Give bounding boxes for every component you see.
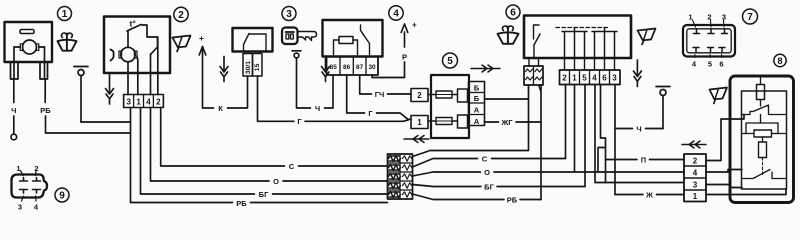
svg-text:+: +: [412, 21, 417, 30]
relay 4: [323, 20, 383, 75]
svg-text:РБ: РБ: [236, 199, 247, 208]
pin 3 drop to РБ bus: [131, 108, 388, 203]
wire Р relay 30 to plus: [372, 24, 408, 78]
loop wire from X1 row1: [413, 85, 529, 157]
svg-text:БГ: БГ: [484, 182, 494, 191]
svg-text:5: 5: [582, 74, 587, 83]
connector 9 pin labels: [16, 164, 39, 212]
ignition terminal labels: [245, 61, 261, 74]
switch 6 two-pin connector: [524, 58, 543, 92]
svg-text:85: 85: [330, 64, 338, 71]
pin 4 drop to О bus: [151, 108, 388, 182]
label circle 9: [55, 188, 69, 202]
relay 4 terminal labels: [330, 64, 376, 71]
wire Ч pin3 to body point B: [615, 85, 663, 195]
label circle 7: [743, 9, 758, 24]
wire from body point A to node: [81, 121, 131, 123]
X2 cell 2 wire to relay 8: [706, 115, 744, 161]
switch 6 pin row 2 1 5 4 6 3: [560, 58, 621, 85]
bus БГ right: [413, 185, 586, 187]
svg-text:8: 8: [777, 55, 782, 66]
svg-text:4: 4: [592, 74, 597, 83]
svg-text:7: 7: [747, 12, 753, 23]
bus О right: [413, 172, 685, 176]
svg-text:+: +: [199, 33, 204, 43]
svg-text:РБ: РБ: [40, 106, 51, 115]
svg-text:Р: Р: [402, 53, 407, 62]
svg-text:Ч: Ч: [11, 106, 16, 115]
relay 8 armature link (dashed): [762, 158, 764, 177]
bus РБ right: [413, 194, 542, 200]
wire Г relay 86 to joint: [347, 75, 411, 119]
wire Ч (pump ground): [13, 79, 15, 134]
svg-text:С: С: [289, 162, 295, 171]
svg-text:ЖГ: ЖГ: [500, 118, 513, 127]
connector 7 labels: [688, 13, 726, 69]
svg-text:3: 3: [612, 74, 617, 83]
svg-text:Ж: Ж: [645, 190, 653, 199]
wire ГЧ relay 87 to block 5: [360, 75, 411, 94]
column switch 6: [524, 16, 631, 59]
svg-text:ГЧ: ГЧ: [375, 90, 385, 99]
svg-text:1: 1: [688, 13, 692, 22]
svg-text:1: 1: [693, 192, 698, 201]
ground symbol right of pin row: [633, 60, 641, 87]
svg-text:4: 4: [393, 9, 399, 20]
svg-text:1: 1: [62, 9, 68, 20]
svg-text:А: А: [474, 105, 480, 114]
label circle 8: [774, 54, 786, 66]
svg-text:О: О: [273, 177, 279, 186]
wire ЖГ to switch connector: [485, 85, 542, 200]
jog to Ж wire: [615, 194, 684, 196]
connector 9: [12, 171, 48, 202]
svg-text:30: 30: [368, 64, 376, 71]
label circle 5: [443, 53, 458, 68]
svg-text:1: 1: [16, 164, 20, 173]
block 5 terminal labels: [417, 83, 479, 127]
circled number digits: [59, 8, 782, 202]
arrow symbol right of block 5: [471, 65, 500, 72]
svg-text:5: 5: [447, 56, 453, 67]
svg-text:1: 1: [136, 98, 141, 107]
right connector X2: [684, 154, 706, 202]
label circle 1: [58, 7, 72, 21]
svg-text:А: А: [474, 117, 480, 126]
relay 8 inner box: [742, 91, 787, 189]
svg-text:3: 3: [126, 98, 131, 107]
relay 8 outer box: [730, 76, 794, 203]
relay 8 coil resistor: [759, 137, 767, 158]
wire Г labels: [297, 109, 373, 126]
svg-text:1: 1: [417, 118, 422, 127]
wire Б2 to switch connector: [485, 98, 529, 100]
svg-text:2: 2: [693, 157, 698, 166]
pin 6 drop to П wire: [598, 85, 684, 183]
X2 cell labels: [693, 157, 698, 202]
svg-text:2: 2: [34, 164, 38, 173]
svg-text:5: 5: [708, 60, 712, 69]
bus labels left: [236, 162, 294, 208]
relay 8 upper contact: [742, 105, 787, 115]
X2 cell 3 wire to relay 8: [706, 185, 742, 188]
pin 4 drop to cell 3: [595, 85, 684, 183]
pin 2 drop: [565, 85, 567, 159]
svg-text:Г: Г: [297, 117, 302, 126]
pin 5 drop: [584, 85, 586, 187]
ignition switch 3: [233, 28, 273, 76]
body ground point B: [656, 87, 670, 129]
wiper motor 2: [104, 17, 170, 95]
svg-text:Ч: Ч: [315, 104, 320, 113]
middle connector X1: [388, 154, 413, 199]
relay 8 top resistor: [757, 76, 765, 106]
body ground point A: [74, 67, 88, 123]
wire Г ignition 15 to joint: [258, 76, 409, 121]
t-degree label: [130, 19, 137, 29]
svg-text:4: 4: [146, 98, 151, 107]
svg-text:2: 2: [707, 13, 711, 22]
wiper icon (relay 8): [710, 88, 728, 104]
svg-text:15: 15: [254, 63, 261, 71]
washer jet icon (switch 6): [498, 26, 519, 44]
ground symbol under motor 2: [106, 73, 114, 104]
wiper icon right of switch 6: [638, 29, 656, 45]
svg-text:2: 2: [417, 91, 422, 100]
svg-text:Ч: Ч: [636, 124, 641, 133]
svg-text:БГ: БГ: [259, 190, 269, 199]
X2 cell 1 wire under relay 8: [706, 189, 786, 195]
ground symbol under relay 4: [322, 59, 330, 82]
node under key: [292, 51, 301, 58]
pin 1 drop: [574, 85, 576, 173]
svg-text:t°: t°: [130, 19, 137, 29]
label circle 4: [389, 6, 403, 20]
wire К battery plus to 30/1: [199, 47, 247, 109]
svg-text:6: 6: [602, 74, 607, 83]
X2 cell 4 wire to relay 8: [706, 170, 742, 173]
svg-text:2: 2: [156, 98, 161, 107]
svg-text:К: К: [218, 104, 223, 113]
washer jet icon (component 1): [58, 33, 77, 51]
svg-text:С: С: [482, 154, 488, 163]
svg-text:2: 2: [562, 74, 567, 83]
arrow symbol above X2: [682, 141, 706, 148]
svg-text:Б: Б: [474, 94, 480, 103]
svg-text:30/1: 30/1: [245, 61, 252, 74]
svg-text:9: 9: [59, 191, 65, 202]
svg-text:87: 87: [356, 64, 364, 71]
bus labels right: [482, 154, 518, 204]
washer pump motor 1: [5, 22, 53, 79]
label circle 6: [506, 5, 520, 19]
wire labels К Ч: [218, 104, 320, 113]
svg-text:6: 6: [719, 60, 723, 69]
svg-text:3: 3: [18, 203, 22, 212]
ground symbol under ignition: [220, 57, 228, 82]
relay 8 resistor loop: [742, 115, 787, 138]
ignition key icon: [282, 28, 317, 45]
svg-text:О: О: [484, 168, 490, 177]
wire РБ from pump: [45, 79, 130, 133]
svg-text:П: П: [641, 155, 646, 164]
svg-text:3: 3: [286, 9, 292, 20]
pin row labels: [562, 74, 617, 83]
svg-text:6: 6: [510, 8, 516, 19]
bus С right: [413, 159, 566, 168]
plus label left: [199, 33, 204, 43]
svg-text:РБ: РБ: [507, 195, 518, 204]
relay 8 lower contact: [742, 170, 787, 179]
block 5 connector box: [411, 75, 485, 138]
svg-text:3: 3: [722, 13, 726, 22]
svg-text:Г: Г: [368, 109, 373, 118]
svg-text:1: 1: [572, 74, 577, 83]
svg-text:3: 3: [693, 181, 698, 190]
label circle 2: [174, 7, 188, 21]
svg-text:86: 86: [343, 64, 351, 71]
pin 2 drop to С bus: [161, 108, 388, 167]
terminal eyelet: [11, 134, 17, 140]
label circle 3: [282, 7, 296, 21]
svg-text:Б: Б: [474, 83, 480, 92]
pin 1 drop to БГ bus: [141, 108, 388, 195]
arrow symbol left below block 5: [404, 136, 429, 143]
wire Ч ignition to relay 85: [297, 58, 334, 108]
motor 2 connector pins 3 1 4 2: [124, 95, 164, 108]
svg-text:4: 4: [693, 169, 698, 178]
connector 7: [683, 20, 735, 58]
wiper icon (component 2): [173, 36, 191, 52]
svg-text:2: 2: [178, 10, 184, 21]
